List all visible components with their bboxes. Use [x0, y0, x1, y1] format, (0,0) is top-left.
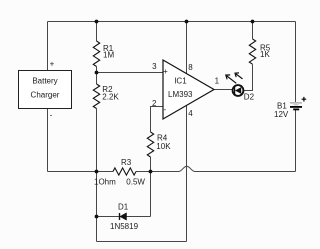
wire left vertical upper (top rail to charger +): [47, 22, 49, 71]
svg-text:Charger: Charger: [31, 91, 60, 100]
resistor R3: [113, 168, 136, 175]
svg-text:LM393: LM393: [168, 90, 193, 99]
svg-text:+: +: [163, 67, 168, 76]
wire D1 right end up to R3/R4 node: [150, 172, 152, 217]
wire mid horizontal left segment (to R3): [48, 171, 114, 173]
svg-text:1K: 1K: [260, 50, 270, 59]
svg-text:Battery: Battery: [32, 77, 57, 86]
node R3/R4/D1 junction: [149, 170, 153, 174]
wire bottom rail: [97, 241, 187, 243]
wire pin 2 input to R4 top: [151, 107, 164, 133]
svg-text:12V: 12V: [274, 110, 289, 119]
svg-text:1M: 1M: [103, 51, 114, 60]
svg-text:1Ohm: 1Ohm: [94, 178, 116, 187]
svg-text:D1: D1: [118, 203, 129, 212]
svg-text:R3: R3: [121, 158, 132, 167]
wire pin 3 input: [97, 72, 164, 74]
LED D2 emission arrows: [226, 75, 237, 83]
battery B1 12V: [290, 102, 302, 104]
node R1 top on rail: [95, 20, 99, 24]
wire pin 4 (op-amp bottom down to bottom rail): [186, 105, 188, 241]
wire R4 bottom to node: [150, 157, 152, 172]
wire R1 branch top (rail to R1): [96, 22, 98, 42]
svg-text:-: -: [163, 105, 166, 114]
wire R5 top to rail: [252, 22, 254, 39]
node D1 left junction: [95, 215, 99, 219]
wire R1-R2 link through pin3 node: [96, 67, 98, 85]
resistor R5: [249, 39, 255, 64]
svg-text:2: 2: [152, 99, 157, 108]
node R5 top on rail: [251, 20, 255, 24]
svg-text:R4: R4: [157, 133, 168, 142]
wire D1 horizontal: [97, 216, 151, 218]
svg-text:D2: D2: [244, 92, 255, 101]
wire pin 1 output to LED: [214, 89, 233, 91]
wire LED anode up to R5 bottom: [243, 64, 252, 90]
svg-text:1N5819: 1N5819: [110, 222, 139, 231]
resistor R1: [93, 41, 99, 67]
node R1/R2/pin3 junction: [95, 71, 99, 75]
battery charger box: [19, 71, 72, 109]
svg-text:4: 4: [188, 109, 193, 118]
node pin8 on rail: [185, 20, 189, 24]
wire left vertical lower (charger - down to R3 line): [47, 109, 49, 172]
resistor R2: [93, 84, 99, 109]
wire right rail lower (battery - to bottom horizontal): [295, 110, 297, 172]
op-amp U1 (IC1 LM393 comparator): [163, 60, 214, 119]
svg-text:1: 1: [215, 76, 220, 85]
LED D2: [233, 85, 244, 96]
battery + mark: [302, 97, 307, 102]
svg-text:-: -: [50, 110, 53, 119]
wire mid horizontal right segment with hop over pin4 wire: [136, 166, 296, 171]
svg-text:3: 3: [152, 62, 157, 71]
diode D1 (1N5819): [120, 213, 127, 220]
svg-text:2.2K: 2.2K: [102, 93, 119, 102]
svg-text:8: 8: [188, 63, 193, 72]
svg-text:0.5W: 0.5W: [126, 178, 145, 187]
wire top rail: [48, 21, 296, 23]
node R2/R3 junction: [95, 170, 99, 174]
resistor R4: [147, 132, 153, 157]
svg-text:IC1: IC1: [174, 77, 187, 86]
wire pin 8 supply (rail to op-amp top): [186, 22, 188, 74]
wire right rail upper (top rail to battery +): [295, 22, 297, 103]
svg-text:+: +: [50, 60, 55, 69]
wire R2 bottom down to bottom rail (through R3 and D1 nodes): [96, 109, 98, 242]
svg-text:10K: 10K: [156, 142, 171, 151]
